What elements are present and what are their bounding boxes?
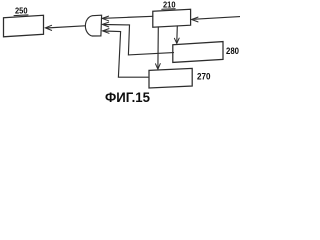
arrowhead gate bottom input xyxy=(103,29,110,34)
label 270 xyxy=(197,71,211,82)
label 210 xyxy=(162,0,176,10)
wire input into 210 from right xyxy=(193,17,240,20)
arrowhead gate middle input xyxy=(102,22,109,27)
svg-text:210: 210 xyxy=(163,0,176,10)
arrowhead into 280 top xyxy=(174,38,179,43)
svg-text:270: 270 xyxy=(197,71,211,82)
wire 270 to gate bottom input (horiz+vert+horiz) xyxy=(104,31,148,77)
svg-text:250: 250 xyxy=(15,6,28,16)
caption ФИГ.15 xyxy=(105,89,150,105)
wire 280 to gate middle input (horiz+vert+horiz) xyxy=(104,25,174,55)
label 280 xyxy=(226,46,239,57)
AND gate U1 xyxy=(85,15,101,36)
block 280 xyxy=(173,42,223,63)
label 250 xyxy=(14,6,28,16)
wire 210 to gate top input xyxy=(104,16,153,18)
svg-text:ФИГ.15: ФИГ.15 xyxy=(105,89,150,105)
arrowhead into 250 xyxy=(45,25,51,30)
block 270 xyxy=(149,68,192,88)
wire 210 to 270 (vertical) xyxy=(157,27,159,68)
wire gate output to 250 xyxy=(46,26,85,28)
wire 210 to 280 (vertical) xyxy=(176,26,179,42)
block 250 xyxy=(4,15,44,37)
arrowhead into 210 xyxy=(192,17,199,22)
arrowhead gate top input xyxy=(102,16,109,21)
svg-text:280: 280 xyxy=(226,46,239,57)
arrowhead into 270 top xyxy=(156,64,161,70)
block 210 xyxy=(153,9,191,27)
